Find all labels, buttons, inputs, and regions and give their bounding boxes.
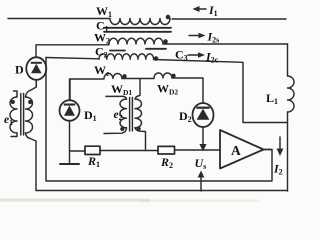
svg-text:D: D [15, 63, 24, 77]
svg-text:A: A [231, 143, 241, 158]
